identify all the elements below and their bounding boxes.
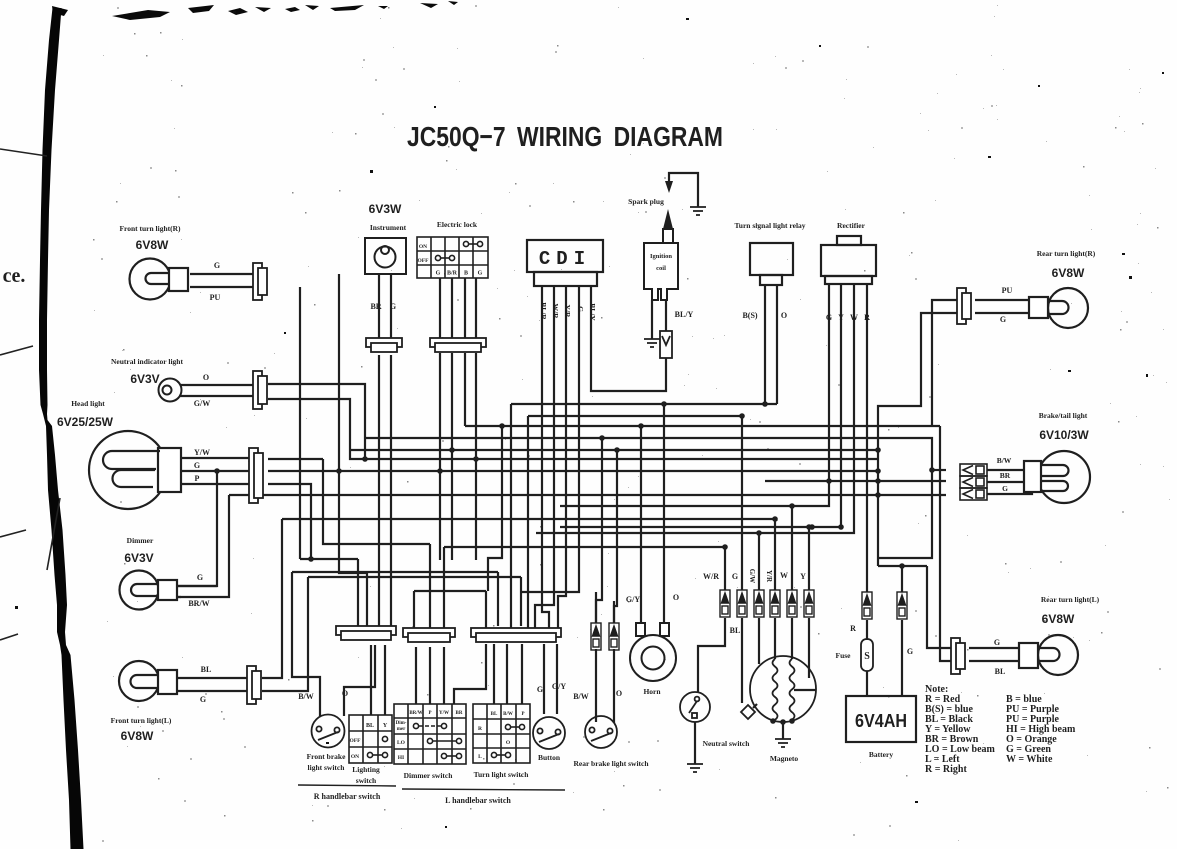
junction (899, 563, 905, 569)
bracket: L handlebar switch (402, 789, 565, 790)
wire: relay B(S) drop (764, 285, 766, 404)
wire: magneto Y riser (808, 527, 810, 590)
switch: button (533, 717, 565, 749)
wire: v358 to R conn (357, 559, 359, 626)
svg-text:BR/W: BR/W (409, 711, 422, 716)
horn (630, 623, 676, 681)
wire: dimmer BR/W (177, 596, 181, 598)
wire: bus y559 (300, 558, 358, 560)
svg-text:G: G (194, 461, 200, 470)
svg-text:G: G (214, 261, 220, 270)
svg-text:Rectifier: Rectifier (837, 221, 866, 230)
svg-text:G: G (537, 685, 543, 694)
svg-text:B/W: B/W (503, 712, 513, 717)
svg-text:W/R: W/R (551, 304, 560, 320)
wire: brake wires to lamp (987, 470, 1032, 494)
svg-text:BR/W: BR/W (188, 599, 209, 608)
wire: v444 dimmer conn (443, 547, 445, 628)
connector: brake G (960, 488, 987, 500)
ground: neutral switch (687, 764, 703, 772)
wire: front turn R G drop (339, 274, 367, 626)
scan artifact: underlying page corner lines (0, 149, 60, 640)
svg-text:Electric lock: Electric lock (437, 220, 478, 229)
svg-text:Button: Button (538, 753, 561, 762)
svg-text:Front turn light(L): Front turn light(L) (111, 716, 172, 725)
wire: horn stubs (641, 623, 664, 635)
svg-text:G/Y: G/Y (626, 595, 640, 604)
magneto (750, 656, 816, 722)
svg-text:Neutral indicator light: Neutral indicator light (111, 357, 183, 366)
svg-text:Dim-: Dim- (396, 721, 407, 726)
svg-text:mer: mer (397, 727, 406, 732)
svg-text:P: P (521, 712, 524, 717)
junction (875, 478, 881, 484)
connector: magneto W (787, 590, 797, 617)
wire: bus y426 (465, 425, 940, 427)
svg-text:G: G (390, 302, 396, 311)
wire: rear turn R PU route (932, 300, 957, 426)
wire: CDI Y/R drop (558, 286, 566, 628)
svg-text:OFF: OFF (350, 738, 362, 744)
svg-text:G/Y: G/Y (552, 682, 566, 691)
svg-text:LO: LO (397, 740, 406, 746)
svg-text:Front turn light(R): Front turn light(R) (119, 224, 181, 233)
svg-text:R = Right: R = Right (925, 764, 967, 775)
connector: head light (249, 448, 263, 503)
connector: magneto W/R (720, 590, 730, 617)
junction (638, 423, 644, 429)
connector: brake B/W (960, 464, 987, 476)
svg-text:Rear turn light(L): Rear turn light(L) (1041, 595, 1100, 604)
junction (739, 413, 745, 419)
svg-text:Y/W: Y/W (439, 711, 449, 716)
wire: bus y519 (282, 518, 775, 520)
wire: electric lock pins (440, 278, 476, 338)
scan artifact: band top hook (52, 6, 68, 16)
svg-text:R handlebar switch: R handlebar switch (314, 792, 381, 801)
svg-text:Rear brake light switch: Rear brake light switch (573, 759, 649, 768)
wire: dimmer G riser (177, 471, 217, 586)
svg-text:O: O (673, 593, 679, 602)
svg-text:G: G (1000, 315, 1006, 324)
wire: front turn L G (177, 690, 247, 692)
wire: relay B(S) bus (511, 403, 777, 405)
wire: arrow O riser (614, 450, 617, 623)
connector: battery G (897, 592, 907, 619)
wire: battery G bus (878, 565, 927, 567)
wire: lighting col1 drop (370, 645, 372, 715)
wire: neutral O bus (281, 384, 365, 459)
wire: magneto ground wire (782, 722, 784, 739)
wire: instrument G drop (390, 355, 392, 626)
connector: magneto G (737, 590, 747, 617)
svg-text:B/W: B/W (298, 692, 314, 701)
wire: instrument BR (378, 274, 380, 338)
wire: CDI BL/Y drop (591, 286, 666, 391)
wire: headlight Y/W (180, 457, 249, 459)
wire: rear R PU (975, 299, 1029, 301)
svg-text:coil: coil (656, 265, 666, 272)
connector: front turn light R (253, 263, 267, 300)
wire: rear L BL (969, 660, 1019, 662)
svg-text:6V3W: 6V3W (369, 202, 402, 216)
svg-text:P: P (428, 711, 431, 716)
svg-text:6V25/25W: 6V25/25W (57, 415, 114, 429)
svg-text:BL: BL (730, 626, 741, 635)
junction (772, 516, 778, 522)
wire: bus y547 (444, 546, 725, 548)
wire: CDI BL/R drop (542, 286, 549, 628)
svg-text:BL: BL (995, 667, 1006, 676)
svg-text:G: G (732, 572, 738, 581)
wire: neutral sw ground wire (694, 722, 696, 764)
CDI unit (527, 240, 603, 286)
junction (614, 447, 620, 453)
wire: bus y506 (560, 284, 829, 506)
wire: horn O riser (663, 404, 665, 635)
wire: instrument G (390, 274, 392, 338)
svg-text:P: P (195, 474, 200, 483)
wire: dimmer BRW riser (177, 495, 229, 597)
svg-text:O: O (342, 689, 348, 698)
scan artifact: left black border band (39, 8, 84, 849)
svg-text:B/R: B/R (447, 271, 458, 277)
junction (473, 456, 479, 462)
svg-text:BL/Y: BL/Y (675, 310, 694, 319)
junction (789, 503, 795, 509)
lamp: front turn light (L) 6V8W (119, 661, 177, 701)
wire: headlight P wire right (268, 484, 311, 559)
svg-text:ce.: ce. (3, 265, 26, 287)
svg-text:Y/R: Y/R (563, 305, 572, 319)
wire: magneto G/W riser (758, 533, 760, 590)
svg-text:O: O (781, 311, 787, 320)
junction (826, 478, 832, 484)
wire: front brake B/W up (292, 572, 320, 716)
junction (806, 524, 812, 530)
svg-text:B/W: B/W (997, 456, 1012, 465)
wire: bus y591 (414, 590, 486, 592)
junction (449, 447, 455, 453)
wire: rear brake sw wires (596, 649, 614, 723)
svg-text:O: O (506, 740, 511, 746)
junction (875, 447, 881, 453)
wire: CDI W/R drop (535, 286, 554, 628)
wire: v430 dimmer conn (429, 544, 431, 628)
wire: v498 to L conn (497, 572, 499, 626)
junction (875, 468, 881, 474)
svg-text:R: R (850, 624, 856, 633)
junction (362, 456, 368, 462)
wire: v510 relay drop (510, 404, 512, 628)
bracket: R handlebar switch (298, 785, 396, 786)
connector: fuse R (862, 592, 872, 619)
svg-text:B/W: B/W (573, 692, 589, 701)
wire: magneto Y/R riser (774, 519, 776, 590)
svg-text:L: L (478, 754, 482, 760)
junction (437, 468, 443, 474)
svg-text:6V8W: 6V8W (136, 238, 169, 252)
wire: rear turn L BL route (940, 426, 951, 661)
ground: ignition coil (644, 339, 660, 347)
svg-text:BL: BL (491, 712, 498, 717)
lamp: rear turn light (R) 6V8W (1029, 288, 1088, 328)
svg-text:Brake/tail light: Brake/tail light (1039, 411, 1088, 420)
svg-text:6V8W: 6V8W (1042, 612, 1075, 626)
connector: rear turn light R (957, 288, 971, 324)
wire: bus y450 (350, 449, 878, 451)
wire: headlight P (180, 483, 249, 485)
wire: arrows riser G/Y (595, 592, 597, 623)
wire: front turn R G (190, 273, 253, 275)
connector: R handlebar harness (336, 626, 396, 640)
wire: v486 L conn (485, 591, 487, 628)
svg-text:HI: HI (398, 755, 404, 761)
svg-text:CDI: CDI (539, 248, 591, 270)
svg-text:Spark plug: Spark plug (628, 197, 664, 206)
svg-text:Dimmer: Dimmer (127, 536, 154, 545)
connector: rear turn light L (951, 638, 965, 674)
svg-text:G/W: G/W (194, 399, 210, 408)
svg-text:Rear turn light(R): Rear turn light(R) (1037, 249, 1096, 258)
switch: rear brake light switch (585, 716, 617, 748)
svg-text:BR: BR (456, 711, 463, 716)
connector: neutral indicator (253, 371, 267, 409)
wire: bus y577 (308, 576, 521, 578)
junction (499, 423, 505, 429)
svg-text:PU: PU (210, 293, 221, 302)
wire: CDI G drop (521, 286, 579, 592)
rectifier (821, 236, 876, 284)
wire: coil BL/Y wire (665, 300, 667, 331)
svg-text:Y: Y (838, 313, 844, 322)
wire: neutral G/W bus (281, 399, 877, 459)
wire: v414 dimmer conn (413, 591, 415, 628)
lamp: brake/tail light 6V10/3W (1024, 451, 1090, 503)
svg-text:ON: ON (351, 754, 359, 760)
svg-text:6V3V: 6V3V (124, 551, 153, 565)
electric lock table (417, 237, 488, 278)
wire: relay O drop (776, 285, 778, 404)
wire: Y/W headlight wire (268, 458, 323, 460)
wire: neutral G/W (179, 395, 253, 397)
svg-text:OFF: OFF (418, 258, 430, 264)
wire: v528 relay drop (527, 416, 529, 628)
svg-text:Front brake: Front brake (307, 752, 346, 761)
svg-text:Battery: Battery (869, 750, 893, 759)
wire: relay O bus (528, 415, 744, 417)
wire: v502 staircase (488, 426, 502, 591)
wire: rear turn R G route (878, 313, 957, 566)
svg-text:BR: BR (370, 302, 381, 311)
wire: rear L G (969, 647, 1019, 649)
svg-text:switch: switch (356, 776, 377, 785)
wire: diamond to magneto (753, 704, 757, 708)
connector: brake BR (960, 476, 987, 488)
connector: magneto Y (804, 590, 814, 617)
ignition coil (644, 229, 678, 300)
turn signal light relay (750, 243, 793, 285)
wire: headlight G (180, 470, 249, 472)
wire: neutral O (181, 384, 253, 386)
svg-text:6V8W: 6V8W (1052, 266, 1085, 280)
svg-text:G/W: G/W (748, 569, 756, 583)
connector: dimmer harness (403, 628, 455, 642)
wire: front turn R PU drop (299, 287, 301, 559)
ground: spark plug (690, 207, 706, 215)
svg-text:Turn signal light relay: Turn signal light relay (734, 221, 805, 230)
wire: rear turn L G route (927, 566, 951, 648)
ground: magneto (775, 739, 791, 747)
junction (762, 401, 768, 407)
svg-text:O: O (616, 689, 622, 698)
connector: instrument (366, 338, 402, 352)
wire: magneto W/R riser (724, 547, 726, 590)
wire: battery G conn drop (901, 620, 903, 696)
svg-text:G: G (826, 313, 832, 322)
svg-text:G: G (907, 647, 913, 656)
wire: instrument BR drop (378, 355, 380, 626)
svg-text:BL: BL (201, 665, 212, 674)
wire: dimmer sw col drops (416, 647, 444, 704)
svg-text:Neutral switch: Neutral switch (703, 739, 751, 748)
wire: fuse to battery (866, 671, 868, 696)
wire: front brake O up (344, 645, 375, 716)
svg-text:G: G (200, 695, 206, 704)
fuse (861, 639, 873, 671)
wire: lock wire 1 drop (439, 353, 441, 560)
svg-text:Horn: Horn (643, 687, 661, 696)
svg-text:G: G (478, 271, 483, 277)
magneto terminal (789, 718, 795, 724)
resistor cap (660, 331, 672, 358)
dimmer switch table (394, 704, 466, 764)
connector: magneto G/W (754, 590, 764, 617)
svg-text:O: O (203, 373, 209, 382)
svg-text:W = White: W = White (1006, 754, 1053, 765)
wire: spark plug top (669, 173, 698, 207)
lamp: head light 6V25/25W (89, 431, 181, 509)
switch: front brake light switch (312, 715, 345, 748)
wire: front turn L G riser (262, 577, 308, 691)
magneto terminal (780, 719, 786, 725)
wire: arrows riser O (613, 601, 615, 623)
neutral switch (680, 692, 710, 722)
wire: front turn L BL (177, 677, 247, 679)
junction (756, 530, 762, 536)
svg-text:BL/R: BL/R (539, 302, 548, 320)
wire: bus y527 (560, 284, 841, 527)
wire: turn sw col drops (494, 644, 522, 704)
svg-text:R: R (864, 313, 870, 322)
svg-text:Y: Y (383, 723, 388, 729)
connector: electric lock (430, 338, 486, 352)
svg-text:Turn light switch: Turn light switch (474, 770, 530, 779)
junction (929, 467, 935, 473)
scan artifact: top edge smudges (112, 1, 458, 20)
junction (722, 544, 728, 550)
wire: neutral O right (268, 384, 281, 399)
junction (661, 401, 667, 407)
wire: lock wire 4 drop (475, 353, 477, 560)
svg-text:PU: PU (1002, 286, 1013, 295)
svg-text:BL: BL (366, 723, 374, 729)
wire: Y/W staircase (323, 459, 430, 544)
lamp: dimmer 6V3W (120, 571, 178, 610)
lighting switch table (349, 715, 392, 763)
wire: horn G/Y riser (640, 426, 642, 635)
svg-text:G: G (994, 638, 1000, 647)
wire: bus y495 to brake G (229, 494, 946, 496)
svg-text:6V8W: 6V8W (121, 729, 154, 743)
wire: magneto G riser (741, 416, 743, 590)
wire: lighting col2 drop (384, 645, 386, 715)
wire: arrow G/Y riser (596, 438, 602, 623)
svg-text:JC50Q−7 WIRING DIAGRAM: JC50Q−7 WIRING DIAGRAM (407, 121, 723, 152)
svg-text:Instrument: Instrument (370, 223, 407, 232)
svg-text:G: G (197, 573, 203, 582)
magneto terminal (770, 718, 776, 724)
wire: button wires (544, 644, 557, 714)
svg-text:B: B (464, 271, 468, 277)
svg-text:ON: ON (419, 244, 427, 250)
svg-text:W: W (780, 571, 788, 580)
svg-text:6V4AH: 6V4AH (855, 711, 907, 731)
wire: rect R leg to fuse (866, 284, 868, 592)
svg-text:B(S): B(S) (742, 311, 757, 320)
wire: bus y533 (536, 284, 854, 533)
svg-text:Magneto: Magneto (770, 754, 799, 763)
svg-text:6V10/3W: 6V10/3W (1039, 428, 1089, 442)
svg-text:BR: BR (1000, 471, 1011, 480)
connector: magneto Y/R (770, 590, 780, 617)
wire: magneto right inner (794, 689, 816, 691)
wire: magneto conn drops (742, 618, 809, 703)
svg-text:6V3V: 6V3V (130, 372, 159, 386)
instrument 6V3W box (365, 238, 406, 274)
svg-text:Fuse: Fuse (836, 651, 852, 660)
svg-text:Lighting: Lighting (352, 765, 380, 774)
junction (838, 524, 844, 530)
wire: battery G riser (901, 566, 903, 592)
svg-text:light switch: light switch (308, 763, 346, 772)
junction (336, 468, 342, 474)
turn light switch table (473, 704, 530, 763)
wire: brake BR bus (765, 480, 946, 482)
svg-text:Ignition: Ignition (650, 253, 672, 260)
battery 6V4AH (846, 696, 916, 742)
junction (308, 556, 314, 562)
wire: coil ground wire (651, 300, 653, 339)
wire: rear R G (975, 312, 1029, 314)
svg-text:W: W (850, 313, 858, 322)
wire: fuse conn wires (866, 620, 868, 640)
lamp: rear turn light (L) 6V8W (1019, 635, 1078, 675)
wire: L conn to dimmer sw U (454, 644, 486, 704)
wire: magneto W riser (791, 506, 793, 590)
wire: v521 to L conn (520, 577, 522, 626)
junction (809, 524, 815, 530)
wire: bus y572 (292, 571, 498, 573)
wire: dimmer G (177, 585, 217, 587)
junction (599, 435, 605, 441)
junction (875, 492, 881, 498)
wire: front turn L BL riser (262, 519, 282, 678)
svg-text:S: S (864, 651, 870, 662)
svg-text:Y/W: Y/W (194, 448, 210, 457)
connector: rear brake G/Y (591, 623, 601, 650)
lamp: neutral indicator light 6V3W (159, 379, 182, 402)
